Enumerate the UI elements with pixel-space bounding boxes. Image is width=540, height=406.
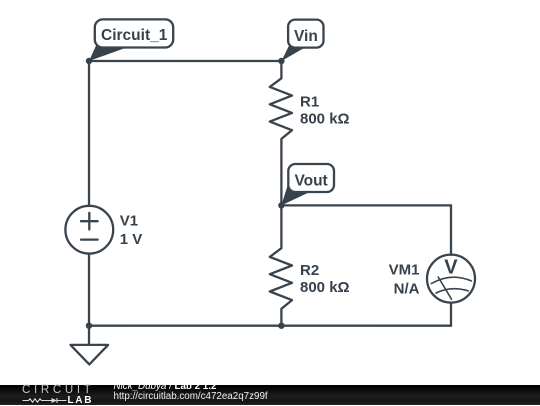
footer line 1 [114, 382, 217, 392]
net flag Vout tail [281, 182, 310, 205]
wire right vertical lower [450, 303, 452, 326]
bubble Vout [288, 164, 334, 192]
net flag Vin tail [282, 45, 305, 61]
svg-text:Vout: Vout [294, 172, 327, 189]
wire left vertical upper [88, 61, 90, 206]
wire top horizontal [89, 60, 281, 62]
svg-text:V1: V1 [120, 213, 138, 230]
bubble Vin [288, 20, 323, 48]
logo wire-diode glyph [16, 396, 68, 405]
resistor R2 [270, 205, 292, 325]
bubble Circuit_1 [95, 19, 173, 47]
svg-text:800 kΩ: 800 kΩ [300, 279, 350, 296]
wire left vertical lower [88, 254, 90, 326]
svg-text:Vin: Vin [294, 28, 318, 45]
svg-text:1 V: 1 V [120, 231, 143, 248]
svg-text:Circuit_1: Circuit_1 [101, 27, 168, 44]
node ground-left [86, 323, 92, 329]
resistor R1 [270, 61, 292, 205]
logo LAB [68, 396, 94, 406]
svg-text:VM1: VM1 [389, 262, 420, 279]
wire Vout horizontal [281, 204, 451, 206]
node bottom-mid [278, 323, 284, 329]
ground [71, 326, 109, 365]
voltage source V1 [65, 206, 113, 254]
footer bar [0, 385, 540, 405]
svg-text:N/A: N/A [394, 281, 420, 298]
logo CIRCUIT [22, 385, 95, 397]
node Vin [278, 58, 284, 64]
node Vout [278, 202, 284, 208]
net flag Circuit_1 [89, 45, 127, 62]
svg-text:R1: R1 [300, 93, 319, 110]
wire bottom rail [89, 325, 451, 327]
footer line 2 [114, 392, 268, 402]
node A top-left [86, 58, 92, 64]
svg-text:V: V [444, 257, 458, 279]
voltmeter VM1 [427, 255, 475, 303]
wire right vertical upper [450, 205, 452, 254]
svg-text:800 kΩ: 800 kΩ [300, 110, 350, 127]
svg-text:R2: R2 [300, 262, 319, 279]
